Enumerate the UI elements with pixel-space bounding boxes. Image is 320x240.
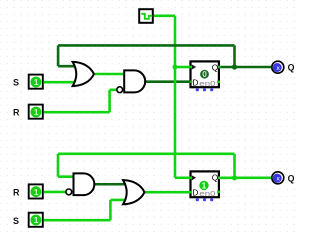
pin clk triangle U2	[192, 175, 197, 180]
node junction bottom Q	[232, 175, 237, 180]
pin S bottom	[29, 213, 43, 227]
bubble AND1 inverted input	[117, 87, 123, 93]
flip-flop U1 (state 0)	[191, 61, 221, 91]
state circle 0	[200, 70, 209, 79]
svg-text:S: S	[13, 77, 19, 87]
port dot Q U1	[218, 66, 221, 69]
wire clock to U1 clk	[175, 66, 191, 69]
pin Qbar stub U2	[217, 191, 220, 194]
wire U1 Q to output pin y=67	[220, 66, 272, 69]
svg-text:1: 1	[34, 215, 39, 225]
wire R bottom to AND2 bubble y=191.9	[44, 191, 66, 194]
svg-text:Q: Q	[288, 174, 295, 184]
wire fb top vertical right x=234.5	[233, 45, 236, 67]
state circle 1	[199, 181, 208, 190]
flip-flop U2 (state 1)	[191, 171, 221, 201]
or-gate OR2	[123, 180, 145, 204]
svg-text:R: R	[13, 187, 20, 197]
wire clock output y=15.8	[154, 15, 175, 18]
or-gate OR1	[73, 62, 94, 86]
pin Qbar stub U1	[217, 81, 220, 84]
svg-text:R: R	[13, 107, 20, 117]
wire R top vertical x=109.6	[108, 90, 111, 112]
pin R bottom	[29, 184, 43, 198]
svg-text:en0: en0	[199, 189, 215, 198]
wire fb top into OR1 input y=66.2	[58, 65, 76, 68]
svg-text:1: 1	[34, 77, 39, 87]
wire clock to U2 clk	[175, 177, 191, 180]
svg-text:D: D	[192, 79, 198, 88]
clock CLK1	[139, 9, 153, 23]
pin Q output bottom	[272, 172, 284, 184]
svg-text:D: D	[192, 189, 198, 198]
svg-text:1: 1	[34, 107, 39, 117]
wire R top to AND1 bubble y=89.8	[110, 89, 117, 92]
svg-text:Q: Q	[288, 63, 295, 73]
wire tip D U1 over border	[189, 80, 192, 83]
svg-text:1: 1	[202, 180, 207, 190]
pin clk triangle U1	[192, 64, 197, 69]
wire AND2 output to OR2 y=184.25 (dark)	[94, 183, 126, 186]
port dot D U1	[190, 80, 193, 83]
pin floating dots U2	[196, 198, 199, 201]
wire clock vertical x=175	[174, 16, 177, 178]
svg-text:0: 0	[202, 70, 207, 79]
bubble AND2 inverted input	[66, 189, 72, 195]
wire OR2 output to U2 D y=192.2	[145, 191, 191, 194]
and-gate AND2	[74, 173, 95, 195]
pin R top	[29, 105, 43, 119]
wire fb top horizontal y=45.4	[58, 44, 234, 47]
wire R top horizontal y=112.2	[44, 111, 110, 114]
pin floating dots U1	[196, 88, 199, 91]
svg-text:en0: en0	[199, 79, 215, 88]
wire tip clk U1 over border	[189, 66, 192, 69]
wire S top to OR1 y=82	[44, 81, 77, 84]
wire S bottom vertical x=110.4	[109, 200, 112, 220]
svg-text:1: 1	[34, 187, 39, 197]
wire fb top vertical left x=58.1	[57, 45, 60, 66]
wire fb bottom into AND2 input y=176.7	[58, 175, 75, 178]
pin Q output top	[272, 61, 284, 73]
wire S bottom horizontal y=220	[44, 219, 110, 222]
wire fb bottom vertical right x=234.5	[233, 154, 236, 178]
wire fb bottom horizontal y=153.8	[58, 153, 235, 156]
node junction top Q	[232, 64, 237, 69]
wire OR1 output to AND1 y=74	[94, 73, 125, 76]
svg-text:Q: Q	[212, 63, 219, 73]
wire fb bottom vertical left x=58	[57, 154, 60, 177]
svg-text:Q: Q	[212, 173, 219, 183]
wire tip clk U2 over border	[189, 177, 192, 180]
pin S top	[29, 75, 43, 89]
wire AND1 output to U1 D (dark, y=82)	[145, 80, 191, 83]
and-gate AND1	[124, 70, 145, 92]
wire S bottom into OR2 y=199.9	[110, 199, 127, 202]
wire tip D U2 over border	[189, 191, 192, 194]
svg-text:S: S	[13, 216, 19, 226]
port dot Q U2	[218, 176, 221, 179]
wire U2 Q to output pin y=177.8	[220, 177, 272, 180]
node clock junction	[173, 65, 178, 70]
